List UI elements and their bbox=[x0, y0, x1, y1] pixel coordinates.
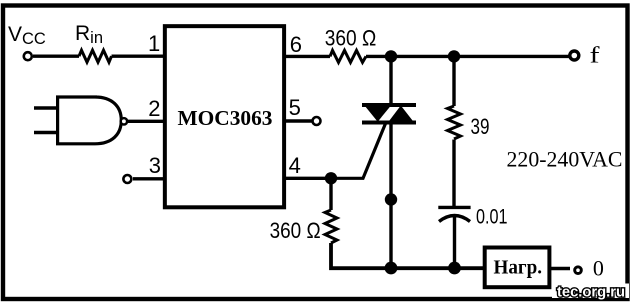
svg-text:3: 3 bbox=[149, 153, 161, 178]
wire pin 3 bbox=[133, 177, 165, 180]
svg-text:2: 2 bbox=[148, 96, 160, 121]
resistor R 39 wire top bbox=[452, 56, 455, 106]
terminal VCC bbox=[24, 52, 32, 60]
svg-text:0: 0 bbox=[593, 256, 604, 281]
triac VS1 wire bottom bbox=[389, 123, 392, 269]
svg-text:360 Ω: 360 Ω bbox=[325, 25, 377, 50]
gate U2 NAND bubble bbox=[121, 118, 127, 124]
terminal f bbox=[570, 51, 579, 60]
resistor R 39 bbox=[448, 106, 461, 139]
junction node at triac top bbox=[385, 50, 397, 62]
capacitor C 0.01 top plate bbox=[438, 206, 470, 209]
capacitor C 0.01 bottom plate bbox=[439, 216, 470, 222]
gate U2 NAND body bbox=[58, 97, 122, 144]
svg-text:4: 4 bbox=[289, 153, 301, 178]
triac VS1 top bar MT2 bbox=[362, 103, 416, 107]
wire NAND output to pin 2 bbox=[128, 120, 165, 123]
triac VS1 gate wire bbox=[331, 124, 386, 179]
wire R360 bottom to rail bbox=[331, 243, 485, 268]
svg-text:5: 5 bbox=[289, 95, 301, 120]
svg-text:Нагр.: Нагр. bbox=[494, 258, 543, 279]
wire top rail bbox=[366, 55, 569, 58]
resistor R 360 ohm bottom bbox=[325, 210, 337, 243]
IC U1 MOC3063 box bbox=[165, 26, 284, 207]
svg-text:360 Ω: 360 Ω bbox=[270, 218, 321, 243]
svg-text:39: 39 bbox=[471, 114, 490, 139]
wire Rin to pin 1 bbox=[112, 55, 166, 58]
wire load to terminal 0 bbox=[551, 267, 570, 271]
terminal pin 5 bbox=[313, 117, 321, 125]
triac VS1 right triangle bbox=[389, 106, 414, 122]
gate U2 NAND input stub bottom bbox=[34, 131, 58, 134]
junction node at RC top bbox=[448, 50, 460, 62]
svg-text:f: f bbox=[590, 43, 600, 68]
wire pin 5 bbox=[284, 119, 312, 122]
wire capacitor to rail bbox=[453, 217, 456, 268]
junction node rail / triac bbox=[385, 262, 398, 275]
svg-text:0.01: 0.01 bbox=[476, 205, 508, 229]
junction node pin 4 / gate bbox=[325, 172, 337, 184]
triac VS1 bottom bar MT1 bbox=[362, 121, 416, 125]
load box Нагр. bbox=[485, 248, 550, 288]
wire VCC to Rin bbox=[33, 55, 79, 58]
triac VS1 wire top bbox=[389, 56, 392, 106]
junction node rail / capacitor bbox=[448, 262, 461, 275]
triac VS1 left triangle bbox=[365, 106, 392, 122]
wire pin 4 bbox=[284, 177, 331, 180]
watermark background bbox=[552, 284, 629, 299]
svg-text:6: 6 bbox=[290, 32, 302, 57]
resistor R 360 ohm top bbox=[330, 50, 366, 62]
resistor Rin bbox=[79, 50, 112, 62]
wire pin 6 to R 360 bbox=[284, 55, 330, 58]
junction node on triac bottom wire bbox=[385, 193, 397, 205]
wire pin4 junction down bbox=[329, 178, 332, 210]
svg-text:220-240VAC: 220-240VAC bbox=[507, 147, 623, 172]
svg-text:1: 1 bbox=[148, 31, 160, 56]
svg-text:tec.org.ru: tec.org.ru bbox=[557, 284, 625, 301]
terminal pin 3 bbox=[123, 175, 131, 183]
svg-text:MOC3063: MOC3063 bbox=[178, 106, 273, 130]
terminal 0 bbox=[575, 267, 582, 274]
wire R39 to capacitor bbox=[452, 140, 455, 209]
gate U2 NAND input stub top bbox=[34, 106, 58, 109]
